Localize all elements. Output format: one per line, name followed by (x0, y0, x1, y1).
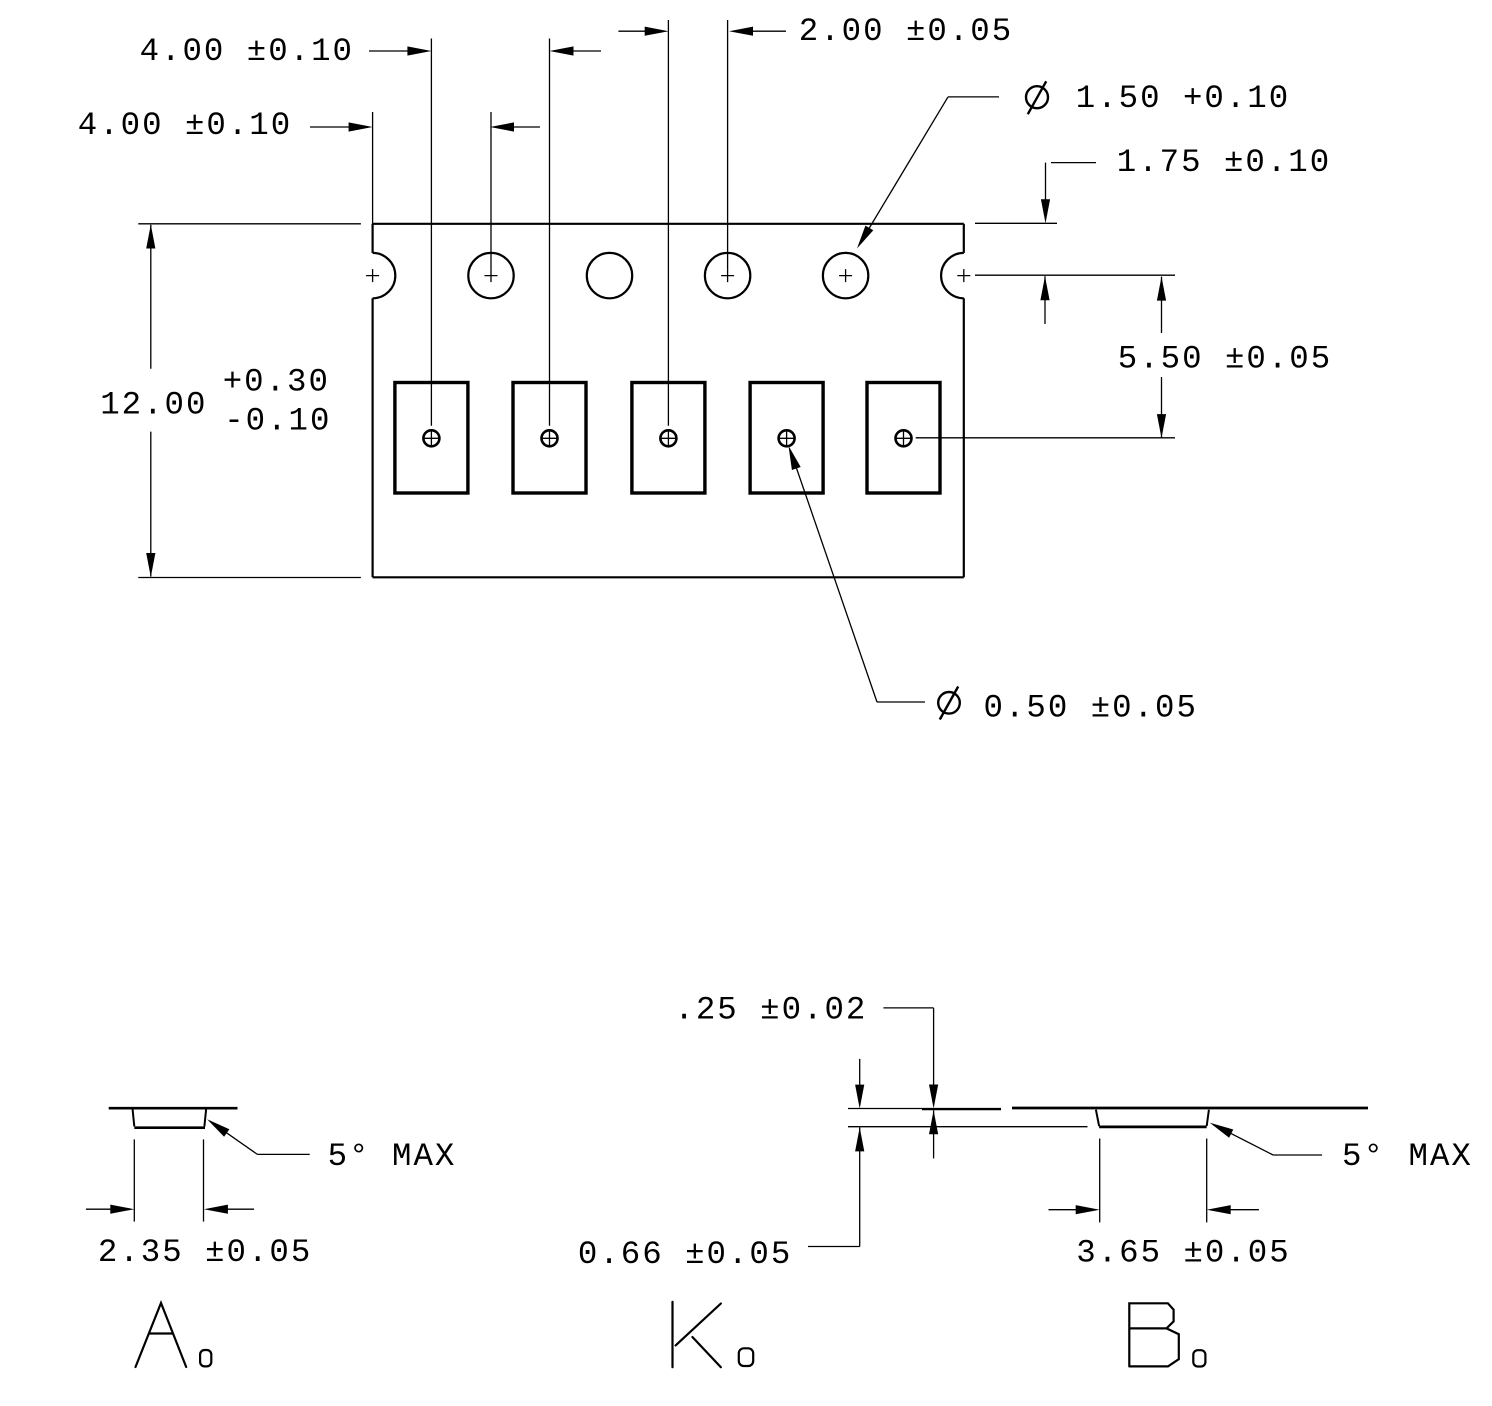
pocket 4 center target mark (779, 430, 795, 446)
extension line pocket 2 center (549, 39, 551, 426)
svg-text:5°: 5° (1342, 1138, 1385, 1175)
svg-text:2.35 ±0.05: 2.35 ±0.05 (98, 1234, 312, 1271)
leader line 5 deg MAX left horizontal segment (257, 1153, 309, 1155)
dimension 12.00 arrow down-pointing (146, 553, 155, 577)
dimension 0.66 arrow up-pointing below pocket bottom line (855, 1127, 864, 1151)
dimension 0.66 vertical tail down to leader (859, 1127, 861, 1246)
center cross of sprocket 4 (721, 269, 734, 282)
dimension 3.65 arrow left-pointing (1207, 1205, 1231, 1214)
leader line for 1.75 horizontal segment (1051, 162, 1096, 164)
dimension 5.50 arrow down-pointing (1157, 414, 1166, 438)
pocket 5 center target mark (896, 430, 912, 446)
dimension 3.65 arrow right-pointing (1076, 1205, 1100, 1214)
dimension 12.00 vertical line lower segment (150, 432, 152, 577)
B0 detail tape surface line (1012, 1107, 1368, 1110)
dimension 2.35 arrow right-pointing (110, 1205, 134, 1214)
dimension 4.00 ±0.10 row1 leader from text (369, 50, 408, 52)
K0 detail tape surface thick segment (922, 1108, 1001, 1110)
svg-text:3.65 ±0.05: 3.65 ±0.05 (1076, 1235, 1290, 1272)
dimension .25 vertical tail below (933, 1110, 935, 1158)
B0 detail extension line right (1206, 1139, 1208, 1223)
pocket 1 center target mark (423, 430, 439, 446)
diameter symbol for 1.50 (1026, 81, 1048, 114)
pocket 5 outline (867, 383, 940, 494)
svg-text:5.50 ±0.05: 5.50 ±0.05 (1118, 341, 1332, 378)
center cross of sprocket 5 (839, 269, 852, 282)
extension line pocket 1 center (430, 39, 432, 426)
dimension 2.00 ±0.05 arrow right-pointing (645, 27, 669, 36)
dimension 5.50 arrow up-pointing (1157, 277, 1166, 301)
leader line for Ø 0.50 horizontal segment (877, 701, 925, 703)
carrier tape left edge upper segment (372, 224, 374, 253)
dimension 2.35 line left segment (86, 1208, 111, 1210)
svg-text:MAX: MAX (1409, 1138, 1473, 1175)
A0 detail pocket bottom line (134, 1126, 205, 1129)
center cross of right notch (957, 269, 970, 282)
extension line sprocket centerline right (975, 274, 1175, 276)
dimension 4.00 ±0.10 row2 line right segment (513, 126, 540, 128)
letter B of B0 label (1129, 1303, 1179, 1366)
pocket 3 center target mark (660, 430, 676, 446)
sprocket hole half notch on right edge (941, 253, 964, 298)
B0 detail extension line left (1099, 1139, 1101, 1223)
dimension 5.50 vertical line upper segment (1161, 277, 1163, 333)
dimension 4.00 ±0.10 row1 arrow right-pointing (407, 46, 431, 55)
dimension 4.00 ±0.10 row2 leader from text (310, 126, 350, 128)
leader line for Ø 0.50 diagonal segment (793, 458, 877, 702)
dimension 2.00 ±0.05 line right segment (752, 30, 786, 32)
svg-text:2.00 ±0.05: 2.00 ±0.05 (799, 13, 1013, 50)
leader line for Ø 1.50 horizontal segment (948, 96, 999, 98)
leader line 5 deg MAX right diagonal segment (1213, 1124, 1273, 1155)
dimension 4.00 ±0.10 row1 arrow left-pointing (550, 46, 574, 55)
dimension 1.75 arrow down-pointing (1041, 199, 1050, 223)
sprocket hole 5 (823, 253, 868, 298)
svg-text:4.00 ±0.10: 4.00 ±0.10 (78, 107, 292, 144)
svg-text:+0.30: +0.30 (223, 364, 330, 401)
leader line for 0.66 horizontal segment (808, 1246, 860, 1248)
dimension 12.00 vertical line upper segment (150, 225, 152, 369)
dimension 1.75 vertical tail below (1044, 276, 1046, 324)
extension line tape left edge (372, 112, 374, 224)
extension line tape bottom for 12.00 (138, 577, 361, 579)
svg-text:0.66 ±0.05: 0.66 ±0.05 (578, 1236, 792, 1273)
svg-text:5°: 5° (328, 1138, 371, 1175)
dimension 1.75 vertical line above (1045, 163, 1047, 200)
svg-text:.25 ±0.02: .25 ±0.02 (674, 992, 867, 1029)
letter A of A0 label (136, 1303, 187, 1367)
carrier tape bottom edge (373, 576, 964, 578)
K0 detail pocket bottom reference line (848, 1126, 1088, 1128)
pocket 4 outline (750, 383, 823, 494)
dimension 4.00 ±0.10 row2 arrow right-pointing (349, 122, 373, 131)
dimension .25 arrow up-pointing (929, 1110, 938, 1134)
leader line for Ø 1.50 diagonal segment (860, 97, 948, 244)
pocket 1 outline (395, 383, 468, 494)
dimension 0.66 vertical line above (859, 1059, 861, 1085)
A0 detail pocket right wall (204, 1110, 206, 1127)
carrier tape left edge lower segment (372, 298, 374, 577)
dimension 4.00 ±0.10 row1 line right segment (573, 50, 602, 52)
leader arrow 5 deg MAX right pointing at pocket corner (1210, 1123, 1234, 1138)
leader line for .25 horizontal segment (883, 1007, 933, 1009)
dimension 1.75 arrow up-pointing below sprocket line (1040, 276, 1049, 300)
A0 detail pocket left wall (133, 1110, 135, 1127)
B0 detail pocket right wall (1207, 1110, 1209, 1126)
diameter symbol for 0.50 (938, 687, 960, 720)
extension line tape top right for 1.75 (975, 222, 1057, 224)
A0 detail extension line right (203, 1139, 205, 1221)
extension line pocket centerline right (916, 437, 1175, 439)
leader arrow for Ø 0.50 pointing at pocket 4 center (789, 446, 801, 470)
center cross of sprocket 2 (485, 269, 498, 282)
sprocket hole 3 (587, 253, 632, 298)
pocket 3 outline (632, 383, 705, 494)
dimension 4.00 ±0.10 row2 arrow left-pointing (490, 122, 514, 131)
carrier tape top edge (373, 223, 964, 225)
svg-text:1.50 +0.10: 1.50 +0.10 (1076, 80, 1290, 117)
subscript o of A0 label (200, 1350, 211, 1366)
pocket 2 outline (513, 383, 586, 494)
carrier tape right edge upper segment (963, 224, 965, 253)
svg-text:12.00: 12.00 (100, 387, 207, 424)
A0 detail tape surface line (109, 1107, 238, 1110)
dimension 5.50 vertical line lower segment (1161, 377, 1163, 438)
leader line 5 deg MAX left diagonal segment (210, 1121, 257, 1154)
carrier tape right edge lower segment (963, 298, 965, 577)
A0 detail extension line left (133, 1139, 135, 1221)
svg-text:4.00 ±0.10: 4.00 ±0.10 (140, 33, 354, 70)
dimension 2.00 ±0.05 arrow left-pointing (729, 27, 753, 36)
pocket 2 center target mark (542, 430, 558, 446)
svg-text:1.75 ±0.10: 1.75 ±0.10 (1117, 144, 1331, 181)
B0 detail pocket left wall (1096, 1110, 1099, 1126)
dimension .25 vertical line above (933, 1008, 935, 1085)
extension line pocket 3 center (667, 20, 669, 426)
leader arrow for Ø 1.50 pointing at sprocket hole (857, 226, 873, 249)
sprocket hole 4 (705, 253, 750, 298)
dimension 2.00 ±0.05 line left segment (618, 30, 645, 32)
dimension .25 arrow down-pointing (929, 1085, 938, 1109)
dimension 3.65 line right segment (1230, 1209, 1259, 1211)
B0 detail pocket bottom line (1099, 1126, 1207, 1129)
svg-text:MAX: MAX (392, 1138, 456, 1175)
dimension 2.35 line right segment (227, 1208, 254, 1210)
subscript o of K0 label (739, 1348, 753, 1366)
sprocket hole half notch on left edge (373, 253, 396, 298)
sprocket hole 2 (468, 253, 513, 298)
dimension 3.65 line left segment (1049, 1209, 1077, 1211)
letter K of K0 label (673, 1302, 721, 1367)
extension line sprocket 2 center (490, 112, 492, 269)
dimension 0.66 arrow down-pointing (855, 1085, 864, 1109)
extension line tape top for 12.00 (138, 223, 361, 225)
dimension 12.00 arrow up-pointing (146, 225, 155, 249)
K0 detail tape surface reference line (848, 1108, 1001, 1110)
svg-text:-0.10: -0.10 (224, 402, 331, 439)
extension line sprocket 4 center (727, 20, 729, 269)
dimension 2.35 arrow left-pointing (204, 1205, 228, 1214)
leader line 5 deg MAX right horizontal segment (1273, 1154, 1322, 1156)
leader arrow 5 deg MAX left pointing at pocket corner (207, 1119, 229, 1137)
subscript o of B0 label (1193, 1350, 1205, 1366)
svg-text:0.50 ±0.05: 0.50 ±0.05 (984, 689, 1198, 726)
center cross of left notch (366, 269, 379, 282)
